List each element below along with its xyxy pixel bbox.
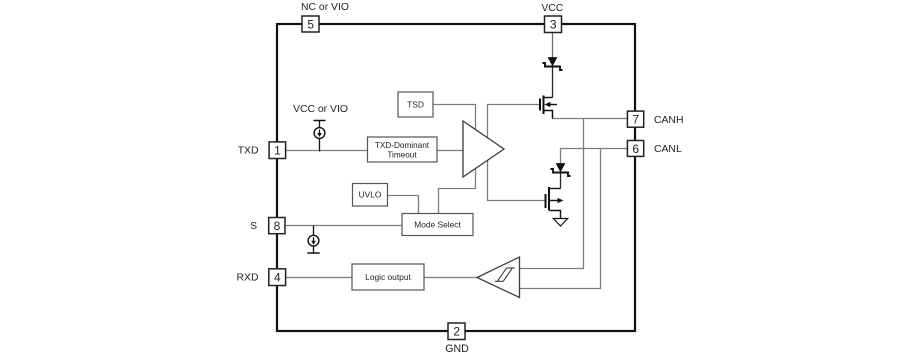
block UVLO xyxy=(353,184,388,207)
svg-text:1: 1 xyxy=(274,144,281,158)
svg-text:TXD: TXD xyxy=(238,146,259,157)
svg-text:3: 3 xyxy=(550,18,557,32)
wire driver output bus and gate leads xyxy=(488,105,546,201)
svg-text:Timeout: Timeout xyxy=(387,151,417,160)
block TSD xyxy=(398,92,433,117)
svg-text:CANH: CANH xyxy=(654,115,683,126)
pin 3 box xyxy=(545,16,562,33)
svg-text:Mode Select: Mode Select xyxy=(414,220,461,230)
svg-text:UVLO: UVLO xyxy=(359,190,382,200)
pin 2 box xyxy=(448,323,465,340)
svg-text:NC or VIO: NC or VIO xyxy=(301,2,349,13)
svg-text:6: 6 xyxy=(632,142,639,156)
svg-text:TXD-Dominant: TXD-Dominant xyxy=(375,141,430,150)
pin 7 box xyxy=(627,111,643,127)
svg-text:Logic output: Logic output xyxy=(365,272,411,282)
pin 5 box xyxy=(302,16,319,32)
wire TXD-Dominant Timeout to driver xyxy=(437,150,463,152)
svg-text:VCC or VIO: VCC or VIO xyxy=(293,104,348,115)
transistor Q1 (high side MOSFET) xyxy=(540,96,557,119)
svg-text:TSD: TSD xyxy=(407,100,424,110)
current source I1 (VCC or VIO pull-up on TXD) xyxy=(314,121,326,152)
pin 6 box xyxy=(627,141,643,157)
receiver hysteresis symbol xyxy=(495,268,515,281)
svg-text:5: 5 xyxy=(307,18,314,32)
block TXD-Dominant Timeout xyxy=(368,137,438,162)
diode D1 (Schottky, VCC side) xyxy=(543,58,563,98)
IC boundary xyxy=(277,24,635,331)
pin 8 box xyxy=(269,218,285,234)
svg-text:7: 7 xyxy=(632,113,639,127)
wire S pin8 to Mode Select xyxy=(285,225,402,227)
svg-text:S: S xyxy=(250,221,257,232)
block Logic output xyxy=(352,264,424,290)
wire VCC pin3 down to diode D1 xyxy=(552,33,554,58)
wire Logic output to receiver xyxy=(424,277,478,279)
transistor Q2 (low side MOSFET) xyxy=(546,187,564,219)
svg-text:8: 8 xyxy=(274,219,281,233)
wire TXD pin1 to TXD-Dominant Timeout xyxy=(286,150,368,152)
receiver amplifier triangle xyxy=(477,257,520,298)
svg-text:VCC: VCC xyxy=(541,3,563,14)
svg-text:4: 4 xyxy=(274,271,281,285)
wire CANL net: pin6 to diode D2 with branch to receiver xyxy=(520,149,628,289)
pin 4 box xyxy=(269,269,286,286)
svg-text:CANL: CANL xyxy=(654,144,682,155)
diode D2 (Schottky, CANL side) xyxy=(551,164,571,189)
pin 1 box xyxy=(269,142,286,159)
ground arrow below Q2 xyxy=(553,219,567,227)
wire CANH net: Q1 source to pin7 with branch to receiver xyxy=(520,112,628,269)
svg-text:GND: GND xyxy=(445,343,469,355)
wire UVLO output to Mode Select xyxy=(388,196,419,214)
current source I2 (pull-down on S) xyxy=(307,226,319,254)
block Mode Select xyxy=(402,214,473,236)
driver amplifier triangle xyxy=(463,121,504,177)
svg-text:RXD: RXD xyxy=(237,273,259,284)
wire RXD pin4 to Logic output xyxy=(286,277,353,279)
wire TSD output down to Mode Select (passes behind driver) xyxy=(433,105,476,214)
svg-text:2: 2 xyxy=(453,325,460,339)
